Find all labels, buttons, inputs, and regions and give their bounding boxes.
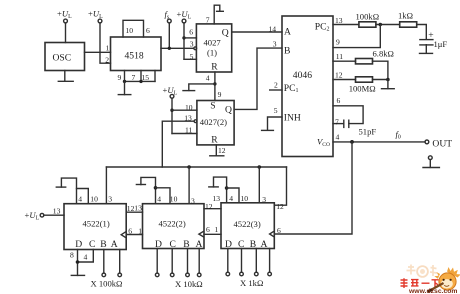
wire 4046 pin 9 up to R junction <box>333 25 380 48</box>
clock bus line <box>106 166 286 168</box>
svg-text:9: 9 <box>118 73 122 82</box>
counter 4522(2) <box>143 195 205 250</box>
svg-text:4: 4 <box>206 74 210 83</box>
svg-text:6: 6 <box>189 28 193 37</box>
svg-text:1: 1 <box>215 225 219 234</box>
node dot between 100k and 1k <box>379 23 383 27</box>
feedback wire OUT node down to 4522(3) pin 6 <box>274 142 352 234</box>
pulse symbol above 4522(3) <box>209 177 239 203</box>
svg-text:12: 12 <box>205 202 213 211</box>
svg-text:13: 13 <box>53 206 61 215</box>
oscillator OSC <box>45 43 85 71</box>
wire 4046 pin 6 loop to capacitor <box>333 96 363 124</box>
svg-text:7: 7 <box>206 15 210 24</box>
wire 4518 output to 4027(1) clock pin 3 <box>161 47 197 50</box>
cascade wire 4522(1) pin 12 to 4522(2) pin 13 <box>126 203 142 213</box>
stub at 4046 pin 2 PC1 <box>270 81 282 90</box>
svg-text:9: 9 <box>218 90 222 99</box>
svg-text:15: 15 <box>142 73 150 82</box>
bus end drop to 4522(3) pin 12 <box>275 167 287 211</box>
svg-text:B: B <box>183 239 189 250</box>
4522(2) preset terminals D C B A <box>155 249 202 290</box>
ground below OSC <box>58 71 73 82</box>
node dot 6.8k/100M junction and ground <box>382 78 395 89</box>
svg-text:10: 10 <box>90 195 98 204</box>
4518 pins 9,7,15 tied to ground <box>118 71 156 84</box>
svg-text:4: 4 <box>84 253 88 262</box>
power terminal +UL at 4027(1) pins 6 and 5 <box>177 9 197 60</box>
svg-text:S: S <box>210 100 215 111</box>
svg-text:4046: 4046 <box>293 70 312 81</box>
svg-text:12: 12 <box>335 70 343 79</box>
svg-text:(1): (1) <box>207 48 217 58</box>
svg-text:A: A <box>261 239 268 250</box>
svg-text:D: D <box>155 239 162 250</box>
svg-text:12: 12 <box>218 146 226 155</box>
svg-text:X 1kΩ: X 1kΩ <box>240 278 263 288</box>
svg-text:4522(3): 4522(3) <box>234 219 261 229</box>
svg-text:3: 3 <box>190 40 194 49</box>
wire loop 4518 pin 10 to pin 6 <box>123 20 150 37</box>
PLL 4046 <box>282 16 333 157</box>
svg-text:4518: 4518 <box>125 51 144 62</box>
capacitor 51pF at 4046 pins 6-7 <box>333 117 376 136</box>
svg-text:X 10kΩ: X 10kΩ <box>175 279 203 289</box>
svg-text:B: B <box>250 239 256 250</box>
svg-text:4522(1): 4522(1) <box>83 219 110 229</box>
wire 4046 pin 4 VCO output to OUT <box>333 129 425 144</box>
wire OSC output to 4518 pin 1 <box>85 43 111 52</box>
svg-text:D: D <box>75 239 82 250</box>
node dot and drop to 4522(3) pin 3 <box>258 165 262 169</box>
node dot and drop to 4522(2) pin 3 <box>187 165 191 169</box>
svg-text:1kΩ: 1kΩ <box>398 10 413 20</box>
svg-text:11: 11 <box>336 52 344 61</box>
svg-text:5: 5 <box>274 106 278 115</box>
bus drop to 4522(1) pin 3 <box>105 167 107 204</box>
svg-text:1μF: 1μF <box>434 39 448 49</box>
wire 4046 pin 12 and resistor 100M <box>333 52 388 93</box>
svg-text:9: 9 <box>336 37 340 46</box>
svg-text:10: 10 <box>126 26 134 35</box>
power terminal +UL at OSC <box>57 9 72 43</box>
svg-text:Q: Q <box>225 104 232 115</box>
power terminal +UL at 4522(1) pin 13 <box>25 206 65 221</box>
pulse symbol at 4027(1) pin 7 <box>214 5 223 24</box>
svg-text:3: 3 <box>273 40 277 49</box>
svg-text:10: 10 <box>241 194 249 203</box>
svg-text:6: 6 <box>146 26 150 35</box>
cascade wire 4522(1) pin 6 to 4522(2) pin 1 <box>121 226 142 237</box>
ground terminal below OUT <box>423 156 439 168</box>
svg-text:6: 6 <box>128 226 132 235</box>
svg-text:14: 14 <box>269 24 277 33</box>
svg-text:OSC: OSC <box>53 53 72 64</box>
pulse symbol above 4522(1) <box>56 178 88 204</box>
capacitor 1uF polarized <box>420 30 448 54</box>
svg-text:6: 6 <box>206 225 210 234</box>
svg-text:4027: 4027 <box>204 38 222 48</box>
counter 4518 <box>111 37 162 71</box>
power terminal +UL at 4027(2) pins 10 and 11 <box>163 85 197 134</box>
svg-text:1: 1 <box>138 226 142 235</box>
counter 4522(3) <box>221 194 274 250</box>
svg-text:3: 3 <box>262 195 266 204</box>
svg-text:1: 1 <box>106 43 110 52</box>
svg-text:R: R <box>211 61 218 72</box>
svg-text:INH: INH <box>284 113 301 124</box>
svg-text:6: 6 <box>277 226 281 235</box>
wire 4046 pin 13 PC2 output <box>333 16 359 25</box>
svg-text:www.dzsc.com: www.dzsc.com <box>408 288 457 294</box>
svg-text:12: 12 <box>276 202 284 211</box>
cascade wire 4522(2) pin 12 to 4522(3) pin 13 <box>204 194 221 211</box>
ground tick at 4027(1) pin 4 node <box>183 84 215 91</box>
wire 4027(1) pin 4 down to 4027(2) pin 9 <box>206 72 222 101</box>
svg-text:100kΩ: 100kΩ <box>356 11 380 21</box>
watermark logo dzsc <box>401 265 460 294</box>
svg-text:2: 2 <box>105 56 109 65</box>
svg-text:A: A <box>111 239 118 250</box>
ground below 4518 <box>118 81 131 94</box>
svg-text:4: 4 <box>336 133 340 142</box>
wire 4027(1) Q to 4046 pin 14 <box>232 24 282 33</box>
flip-flop 4027(1) <box>189 15 231 72</box>
svg-text:8: 8 <box>70 250 74 259</box>
svg-text:3: 3 <box>108 195 112 204</box>
4522(3) preset terminals D C B A <box>226 249 271 289</box>
svg-text:10: 10 <box>170 195 178 204</box>
pulse symbol above 4522(2) <box>136 177 170 203</box>
wire 4046 pin 5 INH to ground <box>262 106 282 131</box>
svg-text:R: R <box>211 134 218 145</box>
resistor 100k <box>356 11 400 27</box>
svg-text:7: 7 <box>335 117 339 126</box>
svg-text:7: 7 <box>132 73 136 82</box>
svg-text:4027(2): 4027(2) <box>200 117 227 127</box>
svg-text:4: 4 <box>78 195 82 204</box>
svg-text:4522(2): 4522(2) <box>159 219 186 229</box>
4522(1) preset terminals B A <box>91 250 123 289</box>
svg-text:B: B <box>100 239 106 250</box>
flip-flop 4027(2) <box>184 100 234 145</box>
power terminal +UL at 4518 pin 2 <box>88 9 111 65</box>
svg-text:Q: Q <box>222 27 229 38</box>
svg-text:13: 13 <box>335 16 343 25</box>
svg-text:3: 3 <box>191 196 195 205</box>
resistor 1k <box>398 10 426 39</box>
svg-text:4: 4 <box>229 194 233 203</box>
ground at 4027(2) pin 12 <box>210 145 226 156</box>
svg-text:C: C <box>89 239 95 250</box>
svg-text:X 100kΩ: X 100kΩ <box>91 279 123 289</box>
svg-text:4: 4 <box>157 195 161 204</box>
svg-text:6: 6 <box>337 96 341 105</box>
input terminal fs <box>165 9 172 50</box>
cascade wire 4522(2) pin 6 to 4522(3) pin 1 <box>199 225 221 237</box>
svg-text:A: A <box>284 26 291 37</box>
svg-text:100MΩ: 100MΩ <box>349 83 376 93</box>
wire 4027(2) clock pin 13 to bus <box>162 120 197 167</box>
svg-text:6.8kΩ: 6.8kΩ <box>373 49 394 59</box>
output terminal f0 OUT <box>425 138 452 149</box>
wire 4046 pin 11 and resistor 6.8k <box>333 49 394 80</box>
svg-text:13: 13 <box>213 194 221 203</box>
svg-text:B: B <box>284 45 290 56</box>
4522(1) pins 8,4 to ground <box>70 250 93 276</box>
svg-text:13: 13 <box>134 203 142 212</box>
svg-text:2: 2 <box>274 81 278 90</box>
svg-text:OUT: OUT <box>432 138 452 149</box>
counter 4522(1) <box>64 195 126 250</box>
4522(3) output pin 6 arrow to feedback <box>270 226 281 237</box>
svg-text:51pF: 51pF <box>359 126 377 136</box>
wire 4027(2) Q to 4046 pin 3 B <box>234 40 282 110</box>
svg-text:5: 5 <box>190 52 194 61</box>
